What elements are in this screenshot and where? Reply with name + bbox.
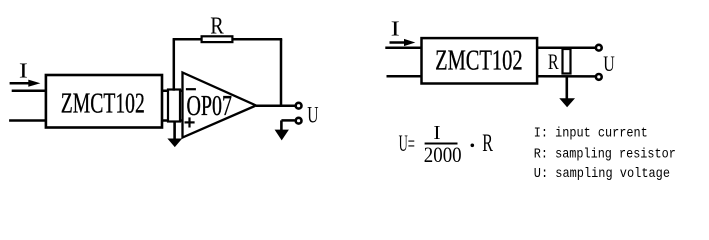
terminal circle top (right circuit) — [596, 45, 602, 51]
resistor R sampling (right circuit, vertical) — [563, 49, 571, 74]
resistor (burden, unlabeled, vertical) — [168, 90, 180, 122]
wire feedback left vertical — [173, 39, 176, 90]
svg-text:I: I — [433, 122, 440, 144]
svg-text:R: R — [482, 130, 493, 157]
wire top input (right circuit) — [385, 47, 421, 50]
input current arrow (right circuit) — [390, 39, 416, 46]
wire feedback top left segment — [173, 38, 202, 41]
ground (left circuit, output) — [275, 120, 289, 140]
current transformer ZMCT102 (left circuit) — [46, 75, 162, 128]
svg-text:U=: U= — [399, 131, 415, 157]
svg-text:I: input current: I: input current — [534, 125, 648, 141]
svg-text:OP07: OP07 — [187, 91, 233, 122]
wire bottom output to terminal (right circuit) — [537, 75, 596, 78]
svg-text:I: I — [19, 58, 28, 82]
wire bottom input (right circuit) — [387, 75, 422, 78]
svg-text:ZMCT102: ZMCT102 — [435, 46, 522, 77]
terminal circle bottom (right circuit) — [596, 74, 602, 80]
formula U = I/2000 . R — [399, 122, 494, 167]
op-amp OP07 — [183, 73, 257, 138]
svg-text:ZMCT102: ZMCT102 — [61, 89, 145, 120]
svg-text:R: R — [548, 49, 559, 74]
wire op-amp output — [256, 105, 296, 108]
svg-text:U: U — [307, 103, 318, 128]
svg-text:U: sampling voltage: U: sampling voltage — [534, 166, 670, 182]
input current arrow (left circuit) — [10, 80, 41, 87]
ground (left circuit, non-inverting input) — [167, 121, 182, 148]
wire bottom terminal (left circuit) — [281, 119, 294, 122]
svg-text:R: sampling resistor: R: sampling resistor — [534, 146, 676, 162]
svg-text:U: U — [603, 51, 615, 76]
terminal circle output bottom (left circuit) — [296, 118, 302, 124]
ground (right circuit) — [559, 76, 575, 107]
wire box to op-amp non-inverting input — [162, 119, 183, 122]
wire bottom input (left circuit) — [9, 119, 46, 122]
wire top output to terminal (right circuit) — [537, 46, 596, 49]
wire top input (left circuit) — [12, 89, 46, 92]
current transformer ZMCT102 (right circuit) — [422, 38, 538, 83]
svg-text:I: I — [391, 17, 400, 41]
wire box to op-amp inverting input — [162, 89, 183, 92]
svg-text:2000: 2000 — [424, 142, 462, 167]
op-amp non-inverting input marker (plus) — [185, 117, 195, 127]
svg-text:R: R — [210, 14, 224, 40]
op-amp inverting input marker (minus) — [186, 88, 196, 90]
wire feedback top right segment — [232, 38, 282, 41]
formula fraction bar — [425, 143, 458, 145]
formula multiplication dot — [471, 144, 475, 148]
terminal circle output top (left circuit) — [296, 103, 302, 109]
wire feedback right vertical — [280, 39, 283, 106]
resistor R (feedback, horizontal) — [202, 36, 233, 42]
